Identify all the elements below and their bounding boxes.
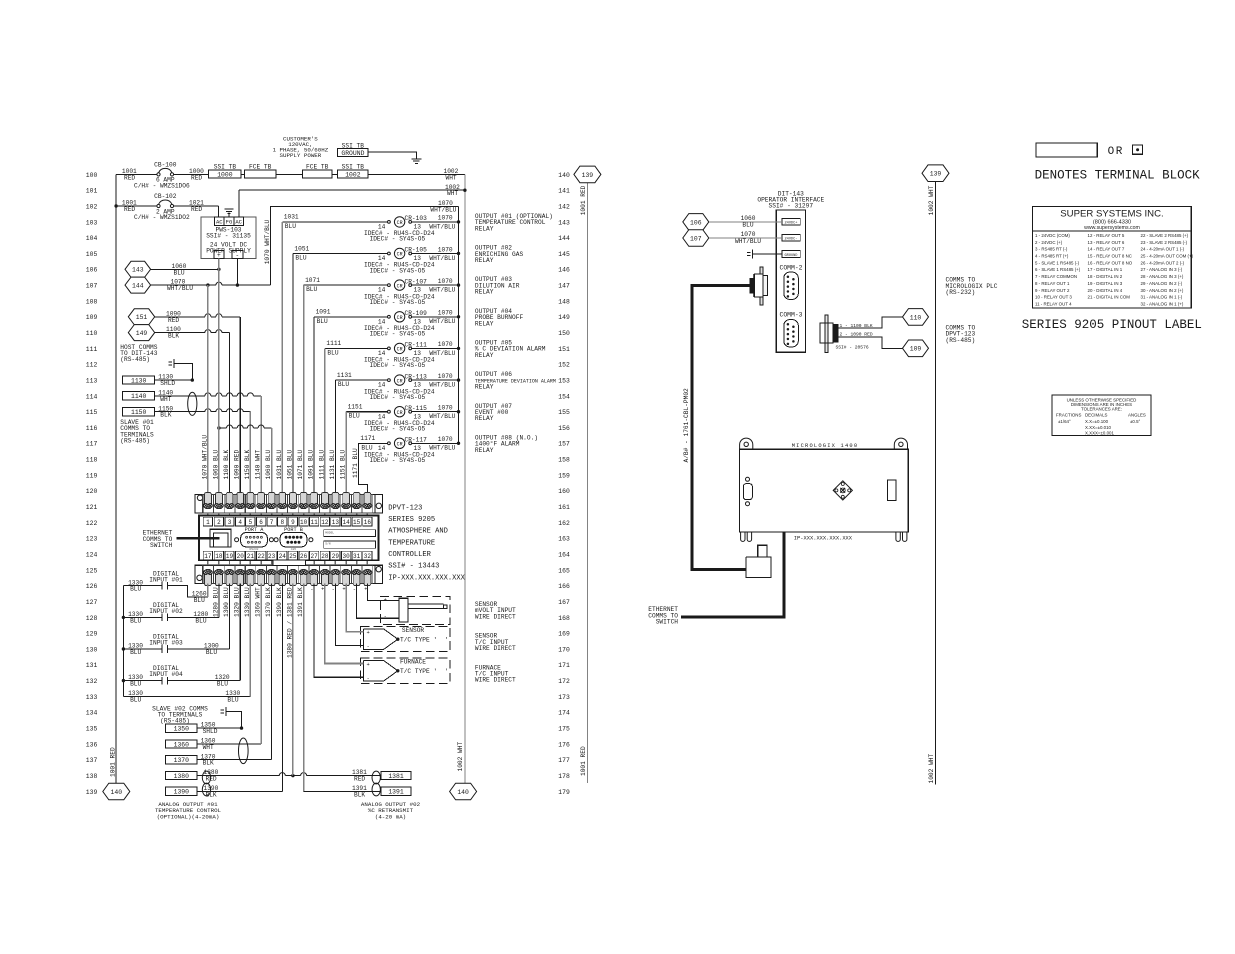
svg-text:1070: 1070 <box>438 215 453 222</box>
svg-text:29 - ANALOG IN 2 (-): 29 - ANALOG IN 2 (-) <box>1141 281 1183 286</box>
svg-text:151: 151 <box>136 314 148 321</box>
node SSI TB GROUND terminal block <box>338 142 368 157</box>
svg-text:11: 11 <box>310 519 318 526</box>
relay CR-107 rung <box>304 277 461 495</box>
svg-text:24VDC-: 24VDC- <box>785 238 798 242</box>
svg-text:RELAY: RELAY <box>475 352 494 359</box>
terminal strip top (field wiring) <box>195 492 382 515</box>
node SSI TB 1002 <box>338 163 368 178</box>
svg-text:CB-100: CB-100 <box>154 161 177 168</box>
note DIGITAL INPUT #04 <box>149 665 183 678</box>
svg-text:143: 143 <box>558 219 570 226</box>
svg-text:6 - SLAVE 1 RS485 (+): 6 - SLAVE 1 RS485 (+) <box>1035 267 1081 272</box>
wire labels above terminal strip (rotated) <box>201 435 346 480</box>
node hexagon 139 (1002 WHT feed) <box>922 165 949 182</box>
wire T/C + lead from terminal 30 <box>346 584 363 632</box>
note ETHERNET COMMS TO SWITCH (left) <box>143 530 173 550</box>
svg-text:BLU: BLU <box>227 697 238 704</box>
svg-text:121: 121 <box>86 504 98 511</box>
svg-text:129: 129 <box>86 631 98 638</box>
svg-text:26: 26 <box>300 553 308 560</box>
svg-text:BLU: BLU <box>338 381 349 388</box>
svg-text:1070: 1070 <box>438 341 453 348</box>
note DIGITAL INPUT #03 <box>149 634 183 647</box>
svg-text:RELAY: RELAY <box>475 415 494 422</box>
svg-text:SWITCH: SWITCH <box>150 542 173 549</box>
svg-text:133: 133 <box>86 694 98 701</box>
svg-text:BLU: BLU <box>130 649 141 656</box>
svg-text:19 - DIGITAL IN 3: 19 - DIGITAL IN 3 <box>1088 281 1123 286</box>
svg-text:485: 485 <box>291 548 297 551</box>
wire ethernet thick lead to jack <box>177 537 220 540</box>
svg-text:BLU: BLU <box>195 617 206 624</box>
wire row 135 1350 SHLD <box>197 722 243 735</box>
svg-text:RED: RED <box>206 776 217 783</box>
svg-text:OR: OR <box>1108 146 1124 158</box>
svg-text:1001 RED: 1001 RED <box>580 746 587 776</box>
svg-text:(OPTIONAL)(4-20mA): (OPTIONAL)(4-20mA) <box>157 813 220 820</box>
svg-text:25: 25 <box>289 553 297 560</box>
svg-text:4: 4 <box>238 519 242 526</box>
ethernet jack on controller <box>210 529 231 547</box>
wire 1002 WHT right vertical bus <box>457 174 465 783</box>
cable plug into COMM-2 <box>750 267 768 305</box>
svg-text:14 - RELAY OUT 7: 14 - RELAY OUT 7 <box>1088 247 1125 252</box>
svg-text:SUPER SYSTEMS INC.: SUPER SYSTEMS INC. <box>1060 209 1163 220</box>
svg-text:20: 20 <box>237 553 245 560</box>
ground shield symbol at DIT-143 <box>747 249 782 258</box>
svg-text:31 - ANALOG IN 1 (-): 31 - ANALOG IN 1 (-) <box>1141 295 1183 300</box>
svg-text:1070: 1070 <box>438 310 453 317</box>
svg-text:140: 140 <box>558 172 570 179</box>
node terminal box 1391 <box>381 787 411 796</box>
svg-text:IP-XXX.XXX.XXX.XXX: IP-XXX.XXX.XXX.XXX <box>388 574 465 582</box>
svg-text:SSI TB: SSI TB <box>214 163 237 170</box>
wire row 102 CB-102 to power supply AC <box>174 200 219 218</box>
svg-text:127: 127 <box>86 599 98 606</box>
svg-text:15 - RELAY OUT 8 NC: 15 - RELAY OUT 8 NC <box>1088 254 1132 259</box>
svg-text:167: 167 <box>558 599 570 606</box>
svg-text:102: 102 <box>86 203 98 210</box>
svg-text:15: 15 <box>353 519 361 526</box>
svg-text:1070: 1070 <box>438 405 453 412</box>
node hexagon 110 <box>903 309 929 326</box>
note ANALOG OUTPUT #02 caption <box>361 801 421 820</box>
svg-text:CR-105: CR-105 <box>405 247 428 254</box>
wire row 100 from bus to CB-100 <box>116 168 157 181</box>
svg-text:170: 170 <box>558 646 570 653</box>
svg-text:115: 115 <box>86 409 98 416</box>
svg-text:1140: 1140 <box>131 393 147 400</box>
svg-text:109: 109 <box>910 346 922 353</box>
svg-text:SSI TB: SSI TB <box>342 163 365 170</box>
svg-text:109: 109 <box>86 314 98 321</box>
svg-text:BLU: BLU <box>174 269 185 276</box>
svg-text:146: 146 <box>558 267 570 274</box>
wire 1070 WHT/BLU to 24VDC- <box>709 231 782 245</box>
svg-text:WIRE DIRECT: WIRE DIRECT <box>475 677 516 684</box>
relay CR-117 rung <box>352 435 460 495</box>
svg-text:100: 100 <box>86 172 98 179</box>
svg-text:WHT: WHT <box>446 174 457 181</box>
wire row 100 gap between FCE TBs <box>241 173 244 175</box>
svg-text:1370: 1370 <box>174 757 190 764</box>
svg-text:9: 9 <box>291 519 295 526</box>
svg-text:17: 17 <box>204 553 212 560</box>
svg-text:IDEC# - SY4S-O5: IDEC# - SY4S-O5 <box>370 331 426 338</box>
svg-text:1070: 1070 <box>438 436 453 443</box>
wire furnace - lead from terminal 27 <box>314 584 363 678</box>
note output description OUTPUT #05 <box>475 340 546 359</box>
note HOST COMMS TO DIT-143 (RS-485) <box>120 344 157 363</box>
svg-text:1060 BLU: 1060 BLU <box>212 450 219 480</box>
svg-text:IDEC# - SY4S-O5: IDEC# - SY4S-O5 <box>370 362 426 369</box>
node FCE TB (left, empty) <box>244 163 276 178</box>
svg-text:-: - <box>353 587 356 593</box>
svg-text:BLU: BLU <box>295 255 306 262</box>
svg-text:1002: 1002 <box>345 171 361 178</box>
note tolerance block <box>1052 395 1151 435</box>
note SLAVE #02 COMMS TO TERMINALS (RS-485) <box>152 705 208 724</box>
svg-text:+: + <box>321 587 324 593</box>
svg-text:1070: 1070 <box>438 278 453 285</box>
svg-text:COMM-2: COMM-2 <box>779 265 802 272</box>
svg-text:1051: 1051 <box>294 245 309 252</box>
svg-text:BLU: BLU <box>742 222 753 229</box>
svg-text:1071: 1071 <box>305 277 320 284</box>
svg-text:3: 3 <box>228 519 232 526</box>
note output description OUTPUT #06 <box>475 371 556 390</box>
wire row 133 1330 BLU to terminal 21 <box>123 584 250 704</box>
svg-text:165: 165 <box>558 567 570 574</box>
svg-text:A/B# - 1761-CBL-PM02: A/B# - 1761-CBL-PM02 <box>683 388 690 463</box>
svg-text:177: 177 <box>558 757 570 764</box>
svg-text:128: 128 <box>86 615 98 622</box>
svg-text:SENSOR: SENSOR <box>402 627 425 634</box>
svg-text:-: - <box>367 644 370 650</box>
note SENSOR T/C INPUT WIRE DIRECT <box>475 633 516 652</box>
label plate MODEL <box>324 530 376 537</box>
svg-text:FRACTIONS: FRACTIONS <box>1056 412 1081 417</box>
svg-text:1171: 1171 <box>360 435 375 442</box>
PLC DB9 port left <box>743 477 752 505</box>
wire 1060 BLU to 24VDC+ <box>709 215 782 229</box>
svg-text:MICROLOGIX 1400: MICROLOGIX 1400 <box>792 443 859 449</box>
cable shield ellipse slave #01 <box>188 392 197 415</box>
svg-text:SSI# - 31135: SSI# - 31135 <box>206 233 251 240</box>
svg-text:1171 BLU: 1171 BLU <box>352 448 359 478</box>
svg-text:113: 113 <box>86 378 98 385</box>
svg-text:ANGLES: ANGLES <box>1128 412 1146 417</box>
svg-text:T/C TYPE ' ': T/C TYPE ' ' <box>400 668 448 675</box>
note output description OUTPUT #08 (N.O.) <box>475 434 538 453</box>
svg-text:17 - DIGITAL IN 1: 17 - DIGITAL IN 1 <box>1088 267 1123 272</box>
svg-text:111: 111 <box>86 346 98 353</box>
svg-text:12 - RELAY OUT 5: 12 - RELAY OUT 5 <box>1088 233 1125 238</box>
ground earth symbol top <box>411 159 421 164</box>
svg-text:CR-115: CR-115 <box>405 405 428 412</box>
svg-text:163: 163 <box>558 536 570 543</box>
svg-text:1060 BLU: 1060 BLU <box>265 450 272 480</box>
svg-text:21: 21 <box>247 553 255 560</box>
node terminal box 1140 <box>123 392 155 401</box>
svg-text:134: 134 <box>86 710 98 717</box>
svg-text:10: 10 <box>300 519 308 526</box>
note DPVT-123 SERIES 9205 description <box>388 504 465 582</box>
svg-text:143: 143 <box>132 267 144 274</box>
furnace T/C pennant (dashed enclosure) <box>361 658 450 683</box>
svg-text:CR: CR <box>397 252 403 258</box>
svg-text:176: 176 <box>558 741 570 748</box>
svg-text:29: 29 <box>332 553 340 560</box>
node terminal box 1360 <box>166 740 197 749</box>
svg-text:1150 BLK: 1150 BLK <box>244 450 251 480</box>
svg-text:1002 WHT: 1002 WHT <box>457 742 464 772</box>
svg-text:131: 131 <box>86 662 98 669</box>
svg-text:CR: CR <box>397 442 403 448</box>
svg-text:WHT/BLU: WHT/BLU <box>735 238 761 245</box>
node terminal box 1130 <box>123 376 155 385</box>
svg-text:13 - RELAY OUT 6: 13 - RELAY OUT 6 <box>1088 240 1125 245</box>
svg-text:1070: 1070 <box>438 246 453 253</box>
svg-text:+: + <box>364 587 367 593</box>
svg-text:SHLD: SHLD <box>160 380 175 387</box>
cable plug into COMM-3 <box>820 315 838 353</box>
svg-text:155: 155 <box>558 409 570 416</box>
svg-text:BLU: BLU <box>194 597 205 604</box>
svg-text:BLU: BLU <box>206 649 217 656</box>
note COMMS TO MICROLOGIX PLC (RS-232) <box>946 277 998 296</box>
svg-text:INPUT #03: INPUT #03 <box>149 640 183 647</box>
svg-text:22 - SLAVE 2 RS485 (+): 22 - SLAVE 2 RS485 (+) <box>1141 233 1189 238</box>
svg-text:C/H# - WMZS1DO6: C/H# - WMZS1DO6 <box>134 182 190 189</box>
svg-text:CR-111: CR-111 <box>405 342 428 349</box>
wire row 116 1060 BLU branch <box>217 425 271 495</box>
node SSI TB 1000 <box>209 163 241 178</box>
controller DPVT-123 main body <box>199 516 378 561</box>
wire 1320 BLU to terminal 20 <box>173 584 240 688</box>
svg-text:30 - ANALOG IN 2 (+): 30 - ANALOG IN 2 (+) <box>1141 288 1184 293</box>
svg-text:16 - RELAY OUT 8 NO: 16 - RELAY OUT 8 NO <box>1088 260 1133 265</box>
svg-text:CR: CR <box>397 347 403 353</box>
svg-text:BLU: BLU <box>349 413 360 420</box>
svg-text:107: 107 <box>86 283 98 290</box>
svg-text:CR: CR <box>397 283 403 289</box>
svg-text:1070 WHT/BLU: 1070 WHT/BLU <box>201 435 208 480</box>
svg-text:1000: 1000 <box>217 171 233 178</box>
twisted pair symbol analog output #01 <box>202 771 210 796</box>
svg-text:144: 144 <box>132 283 144 290</box>
svg-text:30: 30 <box>342 553 350 560</box>
svg-text:105: 105 <box>86 251 98 258</box>
svg-text:147: 147 <box>558 283 570 290</box>
svg-text:153: 153 <box>558 378 570 385</box>
svg-text:WIRE DIRECT: WIRE DIRECT <box>475 645 516 652</box>
svg-text:139: 139 <box>86 789 98 796</box>
sensor T/C pennant (dashed enclosure) <box>361 627 450 652</box>
PLC mounting ear right <box>894 438 907 449</box>
svg-text:8 - RELAY OUT 1: 8 - RELAY OUT 1 <box>1035 281 1070 286</box>
svg-text:AC: AC <box>235 219 242 226</box>
power supply PWS-103 <box>201 217 256 259</box>
svg-text:6: 6 <box>259 519 263 526</box>
svg-text:164: 164 <box>558 552 570 559</box>
svg-text:DECIMALS: DECIMALS <box>1085 412 1108 417</box>
wire between FCE TB and SSI TB 1002 <box>332 173 338 175</box>
svg-text:BLU: BLU <box>306 286 317 293</box>
wire row 137 1370 BLK to terminal 23 <box>197 584 272 767</box>
wire row 139 1390 BLK from terminal 24 <box>197 584 282 799</box>
svg-text:BLU: BLU <box>130 617 141 624</box>
svg-text:(RS-485): (RS-485) <box>946 337 976 344</box>
wire row 110 1100 BLK <box>155 326 230 494</box>
svg-text:28: 28 <box>321 553 329 560</box>
svg-text:140: 140 <box>111 789 123 796</box>
svg-text:SHLD: SHLD <box>203 728 218 735</box>
svg-text:23: 23 <box>268 553 276 560</box>
svg-text:175: 175 <box>558 726 570 733</box>
svg-text:MODEL: MODEL <box>325 531 334 534</box>
svg-text:118: 118 <box>86 457 98 464</box>
svg-text:RED: RED <box>168 317 179 324</box>
svg-text:2: 2 <box>217 519 221 526</box>
svg-text:18: 18 <box>215 553 223 560</box>
svg-text:www.supersystems.com: www.supersystems.com <box>1084 225 1140 231</box>
svg-text:CR-117: CR-117 <box>405 437 428 444</box>
svg-text:106: 106 <box>86 267 98 274</box>
svg-text:-: - <box>236 252 240 259</box>
wire row 113 1130 SHLD <box>155 374 194 387</box>
wire row 114 1140 WHT <box>155 390 261 495</box>
svg-text:149: 149 <box>136 330 148 337</box>
ground shield symbol slave #02 <box>221 707 242 728</box>
svg-text:159: 159 <box>558 472 570 479</box>
svg-text:13: 13 <box>332 519 340 526</box>
svg-text:5: 5 <box>249 519 253 526</box>
svg-text:RELAY: RELAY <box>475 225 494 232</box>
node right ladder row numbers 140-179 <box>558 172 570 796</box>
svg-text:RED: RED <box>124 174 135 181</box>
svg-text:BLU: BLU <box>317 318 328 325</box>
svg-text:-: - <box>384 614 387 620</box>
svg-text:124: 124 <box>86 552 98 559</box>
svg-text:1001 RED: 1001 RED <box>580 185 587 215</box>
wire left bus 1001 RED vertical <box>110 174 117 783</box>
svg-text:AC: AC <box>216 219 223 226</box>
node terminal box 1150 <box>123 408 155 417</box>
svg-text:26 - 4-20mA OUT 2 (-): 26 - 4-20mA OUT 2 (-) <box>1141 260 1185 265</box>
svg-text:IP-XXX.XXX.XXX.XXX: IP-XXX.XXX.XXX.XXX <box>794 536 853 542</box>
operator interface DIT-143 body <box>776 210 805 352</box>
wire sensor - lead from terminal 31 <box>353 584 399 619</box>
breaker CB-102 <box>134 193 190 221</box>
svg-text:1390: 1390 <box>174 789 190 796</box>
svg-text:32 - ANALOG IN 1 (+): 32 - ANALOG IN 1 (+) <box>1141 302 1184 307</box>
svg-text:(4-20 mA): (4-20 mA) <box>375 813 406 820</box>
connector COMM-3 (DB9 female) <box>779 312 802 347</box>
svg-text:135: 135 <box>86 726 98 733</box>
tab below controller <box>273 560 306 565</box>
svg-text:WHT: WHT <box>203 744 214 751</box>
svg-text:116: 116 <box>86 425 98 432</box>
svg-text:IDEC# - SY4S-O5: IDEC# - SY4S-O5 <box>370 394 426 401</box>
svg-text:28 - ANALOG IN 3 (+): 28 - ANALOG IN 3 (+) <box>1141 274 1184 279</box>
svg-text:SSI# - 31297: SSI# - 31297 <box>769 202 814 209</box>
wire 1280 BLU to terminal 18 <box>173 584 219 625</box>
svg-text:166: 166 <box>558 583 570 590</box>
svg-text:SERIES 9205: SERIES 9205 <box>388 516 435 524</box>
svg-text:1111: 1111 <box>326 340 341 347</box>
svg-text:140: 140 <box>457 789 469 796</box>
node hexagon 139 top of right bus <box>574 166 601 183</box>
wire row 102 from bus to CB-102 <box>114 200 156 213</box>
relay CR-105 rung <box>293 245 460 494</box>
node terminal box 1390 <box>166 787 197 796</box>
svg-text:S/N: S/N <box>325 542 331 546</box>
node terminal box 1381 <box>381 771 411 780</box>
svg-text:SSI# - 20576: SSI# - 20576 <box>836 345 869 351</box>
svg-text:1140 WHT: 1140 WHT <box>255 450 262 480</box>
svg-text:IDEC# - SY4S-O5: IDEC# - SY4S-O5 <box>370 299 426 306</box>
svg-text:3 - RS485 RT (-): 3 - RS485 RT (-) <box>1035 247 1068 252</box>
svg-text:BLK: BLK <box>354 791 365 798</box>
note output description OUTPUT #01 (OPTIONAL) <box>475 213 553 232</box>
svg-text:123: 123 <box>86 536 98 543</box>
svg-text:12: 12 <box>321 519 329 526</box>
PLC memory slot right <box>887 480 896 500</box>
svg-text:RED: RED <box>191 174 202 181</box>
svg-text:BLU: BLU <box>285 223 296 230</box>
svg-text:141: 141 <box>558 188 570 195</box>
svg-text:1: 1 <box>206 519 210 526</box>
svg-text:CR: CR <box>397 410 403 416</box>
svg-text:173: 173 <box>558 694 570 701</box>
svg-text:1320 BLU: 1320 BLU <box>234 587 241 617</box>
wire row 115 1150 BLK <box>155 405 251 494</box>
note DIT-143 OPERATOR INTERFACE header <box>757 190 824 209</box>
svg-text:139: 139 <box>582 172 594 179</box>
note DIGITAL INPUT #02 <box>149 602 183 615</box>
svg-text:110: 110 <box>86 330 98 337</box>
svg-text:157: 157 <box>558 441 570 448</box>
wire row 100 CB-100 to SSI TB 1000 <box>174 168 209 181</box>
pinout label SUPER SYSTEMS INC table <box>1033 207 1194 308</box>
svg-text:103: 103 <box>86 219 98 226</box>
svg-text:INPUT #01: INPUT #01 <box>149 576 183 583</box>
svg-text:145: 145 <box>558 251 570 258</box>
relay CR-113 rung <box>335 372 460 495</box>
svg-text:INPUT #04: INPUT #04 <box>149 671 183 678</box>
svg-text:FCE TB: FCE TB <box>249 163 272 170</box>
svg-text:+: + <box>384 597 387 603</box>
svg-text:20 - DIGITAL IN 4: 20 - DIGITAL IN 4 <box>1088 288 1123 293</box>
svg-text:1051 BLU: 1051 BLU <box>286 450 293 480</box>
svg-text:CR: CR <box>397 220 403 226</box>
wire 1300 BLU to terminal 19 <box>173 584 229 657</box>
svg-text:25 - 4-20mA OUT COM (+): 25 - 4-20mA OUT COM (+) <box>1141 254 1194 259</box>
note COMMS TO DPVT-123 (RS-485) <box>946 325 976 344</box>
svg-text:BLK: BLK <box>206 791 217 798</box>
svg-text:1100 BLK: 1100 BLK <box>223 450 230 480</box>
svg-text:122: 122 <box>86 520 98 527</box>
sensor mVOLT probe (dashed enclosure) <box>380 596 450 624</box>
svg-text:CR-107: CR-107 <box>405 278 428 285</box>
svg-text:X.X=±0.100: X.X=±0.100 <box>1085 419 1109 424</box>
svg-text:+: + <box>342 587 345 593</box>
svg-text:11 - RELAY OUT 4: 11 - RELAY OUT 4 <box>1035 302 1072 307</box>
node hexagon 151 <box>128 309 154 325</box>
svg-text:WIRE DIRECT: WIRE DIRECT <box>475 613 516 620</box>
